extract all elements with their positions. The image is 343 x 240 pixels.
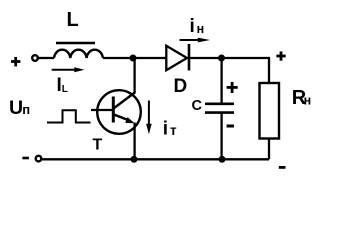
plus terminal label (input +) bbox=[11, 57, 20, 66]
wire: node A down to collector bbox=[133, 58, 135, 93]
node B (capacitor junction top) bbox=[218, 55, 225, 62]
svg-text:п: п bbox=[22, 102, 30, 117]
diode D bbox=[166, 44, 189, 71]
svg-text:н: н bbox=[197, 22, 205, 36]
wire: diode to node B bbox=[189, 57, 269, 59]
bottom rail wire bbox=[42, 158, 270, 160]
arrow IL (inductor current) bbox=[52, 67, 85, 72]
minus terminal label (input -) bbox=[22, 157, 29, 160]
pulse waveform symbol bbox=[47, 110, 91, 122]
svg-text:i: i bbox=[190, 16, 195, 37]
node C (emitter junction bottom) bbox=[131, 156, 138, 163]
wire: top-right corner down to resistor bbox=[268, 58, 269, 83]
svg-text:L: L bbox=[67, 9, 79, 31]
output terminal circle (bottom-left) bbox=[36, 156, 42, 162]
svg-text:н: н bbox=[304, 94, 312, 108]
arrow iN (load current) bbox=[180, 38, 211, 43]
capacitor plus mark bbox=[227, 82, 238, 93]
svg-text:D: D bbox=[174, 76, 188, 97]
input terminal circle (top-left) bbox=[32, 55, 38, 61]
svg-text:L: L bbox=[62, 84, 68, 95]
wire: resistor down to bottom rail bbox=[268, 139, 270, 160]
capacitor C bbox=[205, 104, 234, 113]
transistor T bbox=[97, 90, 141, 134]
wire: base lead bbox=[91, 109, 114, 111]
plus output label bbox=[276, 51, 285, 60]
node A (collector junction) bbox=[130, 55, 137, 62]
wire: inductor to node A bbox=[103, 57, 166, 59]
svg-text:C: C bbox=[192, 98, 203, 114]
svg-text:U: U bbox=[9, 97, 23, 119]
wire: terminal to inductor bbox=[38, 57, 54, 59]
svg-text:T: T bbox=[93, 137, 103, 154]
wire: node B down to capacitor bbox=[220, 58, 222, 103]
wire: capacitor down to node C2 bbox=[220, 113, 222, 160]
node D (capacitor junction bottom) bbox=[219, 156, 226, 163]
inductor L bbox=[54, 43, 103, 58]
svg-text:т: т bbox=[170, 123, 177, 138]
svg-text:i: i bbox=[163, 118, 168, 139]
arrow iT (transistor current) bbox=[146, 101, 152, 135]
capacitor minus mark bbox=[227, 125, 234, 128]
wire: emitter down to node C bbox=[133, 123, 135, 160]
resistor RN bbox=[260, 83, 280, 139]
minus output label bbox=[279, 166, 286, 169]
